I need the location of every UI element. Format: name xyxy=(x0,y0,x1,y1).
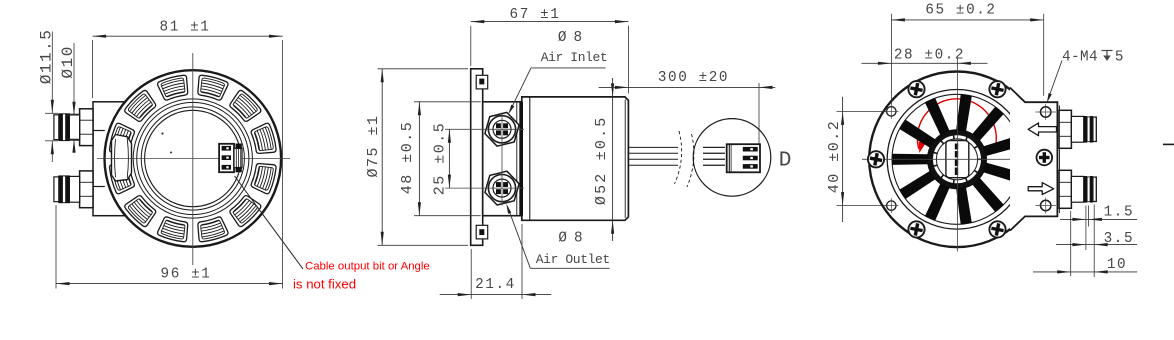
svg-text:5: 5 xyxy=(1115,50,1125,66)
right view centerlines xyxy=(862,158,1035,160)
lower hose fitting (left) xyxy=(80,171,93,208)
dim 67 +/-1 xyxy=(471,21,629,23)
svg-text:Ø75 ±1: Ø75 ±1 xyxy=(365,114,382,177)
fan shroud circle xyxy=(887,90,1027,230)
svg-text:3.5: 3.5 xyxy=(1104,231,1135,247)
main cylinder body xyxy=(522,97,629,220)
cable wires xyxy=(629,146,679,148)
air inlet port xyxy=(485,112,519,146)
flange screw detail bottom xyxy=(476,225,488,239)
right connection block xyxy=(1010,88,1057,231)
dim 1.5 xyxy=(1070,211,1072,276)
red arrowhead xyxy=(919,142,926,154)
dim Ø52 +/-0.5 xyxy=(612,78,614,241)
port centerlines xyxy=(445,128,524,130)
dim Ø75 +/-1 xyxy=(381,69,383,246)
svg-text:Ø52 ±0.5: Ø52 ±0.5 xyxy=(593,115,610,205)
leader for 4-M4 xyxy=(1048,61,1062,99)
dim 21.4 xyxy=(440,294,552,296)
svg-text:is not fixed: is not fixed xyxy=(293,277,356,292)
dim 300 +/-20 xyxy=(599,86,776,88)
red rotation arc xyxy=(917,99,996,149)
svg-text:Air Inlet: Air Inlet xyxy=(541,50,608,65)
front flange plate xyxy=(471,69,483,246)
svg-text:65 ±0.2: 65 ±0.2 xyxy=(925,2,996,18)
cable break marks xyxy=(675,131,682,184)
svg-text:Ø8: Ø8 xyxy=(558,231,589,247)
dim 25 +/-0.5 xyxy=(448,129,450,188)
dim 65 +/-0.2 xyxy=(891,19,1043,21)
svg-text:48 ±0.5: 48 ±0.5 xyxy=(399,121,416,195)
svg-text:28 ±0.2: 28 ±0.2 xyxy=(894,48,965,64)
connector body xyxy=(727,144,760,172)
outer housing circle (left view) xyxy=(105,70,282,247)
central connector (left view) xyxy=(219,144,234,172)
vent slot ring circles xyxy=(133,99,252,218)
svg-text:300 ±20: 300 ±20 xyxy=(658,70,729,86)
svg-text:21.4: 21.4 xyxy=(475,277,516,293)
left mounting block xyxy=(93,102,136,216)
inner bore circles xyxy=(141,107,244,210)
hub ticks xyxy=(934,153,938,154)
svg-text:25 ±0.5: 25 ±0.5 xyxy=(432,122,449,196)
flow arrow out (bottom, pointing right) xyxy=(1028,183,1054,195)
hex boss at 9 o'clock xyxy=(112,135,132,182)
svg-text:D: D xyxy=(779,150,792,173)
dim 40 +/-0.2 xyxy=(842,97,844,222)
svg-text:96 ±1: 96 ±1 xyxy=(161,267,212,283)
M4 holes on block xyxy=(1041,107,1051,117)
center label sticker xyxy=(946,141,969,178)
blade tip circle xyxy=(892,94,1022,224)
dim 81 +/-1 xyxy=(93,35,283,37)
flow arrow in (top, pointing left) xyxy=(1028,123,1056,136)
right hose fittings xyxy=(1059,110,1071,148)
rear housing circle xyxy=(869,72,1045,248)
mid block xyxy=(483,102,521,216)
svg-text:81 ±1: 81 ±1 xyxy=(160,20,211,36)
dim 28 +/-0.2 xyxy=(862,62,988,64)
rim screws xyxy=(989,81,1005,97)
svg-text:Cable output bit or Angle: Cable output bit or Angle xyxy=(305,261,430,273)
dim Ø10 xyxy=(73,43,75,115)
svg-text:Air Outlet: Air Outlet xyxy=(536,252,610,267)
connector detail circle xyxy=(693,119,771,197)
connector wires xyxy=(703,146,725,148)
fan hub rings xyxy=(930,132,984,186)
two small dots inside bore xyxy=(161,132,163,134)
joint bar between mid block and body xyxy=(519,102,523,216)
svg-text:Ø8: Ø8 xyxy=(558,30,589,46)
center screw on block xyxy=(1037,150,1053,166)
svg-text:40 ±0.2: 40 ±0.2 xyxy=(826,120,843,194)
leader to red note xyxy=(235,176,304,269)
dim 3.5 xyxy=(1056,244,1137,246)
12 vent slots with grille arcs xyxy=(198,75,228,100)
svg-text:4-M4: 4-M4 xyxy=(1062,50,1098,66)
block inner edge lines xyxy=(93,130,105,132)
svg-text:67 ±1: 67 ±1 xyxy=(510,7,561,23)
left view centerlines xyxy=(97,158,290,160)
dim 10 xyxy=(1033,271,1137,273)
11 fan blades xyxy=(892,154,928,165)
svg-text:1.5: 1.5 xyxy=(1104,205,1135,221)
dim 48 +/-0.5 xyxy=(418,102,420,216)
svg-text:10: 10 xyxy=(1107,257,1127,273)
drawing border fragment right edge xyxy=(1163,143,1174,145)
dim 96 +/-1 xyxy=(56,283,283,285)
dim Ø11.5 xyxy=(51,32,53,114)
M4 mounting holes left xyxy=(887,107,896,116)
flange screw detail top xyxy=(476,75,488,89)
svg-text:Ø11.5: Ø11.5 xyxy=(38,29,56,85)
svg-text:Ø10: Ø10 xyxy=(59,45,77,78)
air outlet port xyxy=(485,171,519,205)
upper hose fitting (left) xyxy=(80,109,93,146)
